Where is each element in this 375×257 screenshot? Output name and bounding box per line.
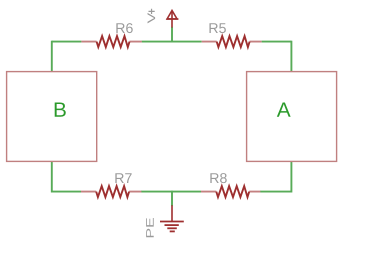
box outline A [247, 72, 337, 162]
wire: left rail bottom vertical [51, 161, 53, 192]
module box B [7, 72, 97, 162]
resistor R6 [81, 23, 141, 47]
wire: right rail bottom vertical [290, 161, 292, 192]
supply V+ symbol [148, 9, 179, 28]
V+ crossbar [166, 18, 178, 20]
module box A [247, 72, 337, 162]
net label V+, plus sign [149, 9, 155, 14]
PE ground bar 3 [167, 227, 177, 229]
zigzag body of R7 [96, 186, 129, 197]
zigzag body of R6 [97, 36, 130, 47]
PE ground bar 2 [165, 224, 179, 226]
resistor R7 [81, 173, 141, 197]
wire: top-right horizontal segment [262, 41, 292, 43]
zigzag body of R5 [217, 36, 250, 47]
zigzag body of R8 [216, 186, 249, 197]
ground PE symbol [146, 205, 184, 237]
pins of R7 [81, 191, 141, 193]
V+ stem [171, 11, 173, 28]
pins of R6 [81, 41, 141, 43]
resistor R8 [201, 173, 260, 197]
PE ground stem [171, 205, 173, 221]
name label R7 [115, 173, 123, 183]
wire: right rail top vertical [290, 41, 292, 72]
pins of R5 [202, 41, 262, 43]
wire: top-left horizontal segment [52, 41, 82, 43]
label letter A [277, 102, 291, 116]
wire: top-middle horizontal segment through V+ node [142, 41, 202, 43]
PE ground bar 4 [170, 230, 175, 232]
net label PE (rotated), letter E [146, 218, 154, 227]
name label R6 [116, 23, 124, 33]
resistor R5 [202, 23, 262, 47]
wire: bottom-right horizontal segment [260, 191, 291, 193]
wire: bottom-left horizontal segment [52, 191, 81, 193]
V+ arrowhead triangle [167, 11, 177, 19]
name label R5 [209, 23, 217, 33]
label letter B [55, 102, 66, 116]
net label PE (rotated), letter P [146, 229, 154, 237]
wire: V+ stub vertical [171, 27, 173, 43]
pins of R8 [201, 191, 260, 193]
wire: bottom-middle horizontal segment through PE node [141, 191, 201, 193]
PE ground bar 1 [160, 221, 184, 223]
net label V+ (rotated), letter V [148, 13, 156, 23]
box outline B [7, 72, 97, 162]
wire: left rail top vertical [51, 41, 53, 72]
wire: PE stub vertical [171, 191, 173, 206]
name label R8 [210, 173, 218, 183]
